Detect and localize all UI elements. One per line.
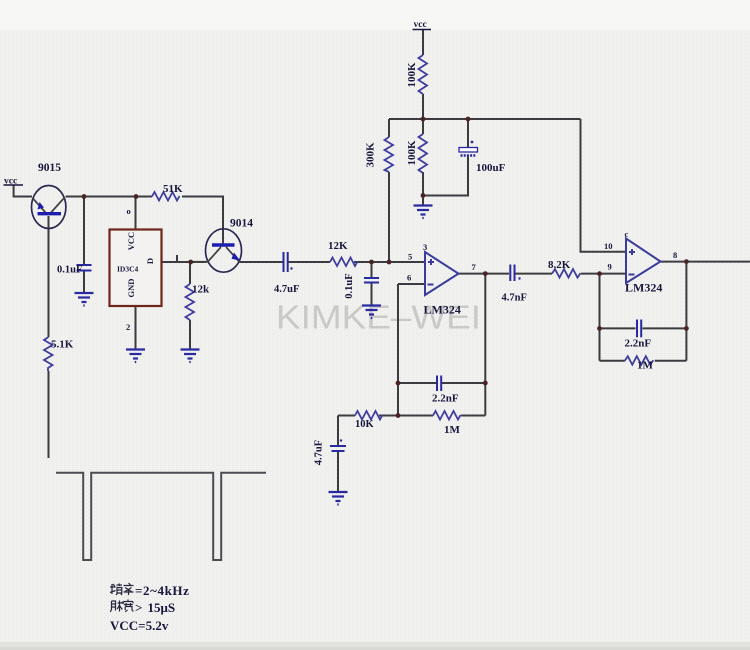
svg-text:4.7nF: 4.7nF (502, 293, 527, 304)
svg-text:VCC=5.2v: VCC=5.2v (110, 618, 169, 633)
svg-text:LM324: LM324 (424, 303, 461, 317)
svg-text:8.2K: 8.2K (548, 259, 571, 271)
svg-text:100uF: 100uF (476, 162, 506, 174)
svg-text:2.2nF: 2.2nF (625, 338, 652, 350)
svg-text:o: o (127, 206, 131, 216)
svg-text:5.1K: 5.1K (51, 339, 74, 351)
svg-text:0.1uF: 0.1uF (57, 265, 82, 276)
svg-text:6: 6 (407, 273, 411, 283)
svg-text:4.7uF: 4.7uF (274, 284, 299, 295)
svg-text:D: D (145, 258, 155, 264)
svg-text:vcc: vcc (414, 20, 427, 30)
svg-text:10: 10 (604, 241, 613, 251)
svg-text:0.1uF: 0.1uF (344, 273, 355, 298)
svg-text:9: 9 (608, 262, 612, 272)
svg-text:12K: 12K (328, 240, 348, 252)
svg-text:5: 5 (408, 252, 412, 262)
svg-text:LM324: LM324 (625, 281, 662, 295)
svg-text:9015: 9015 (38, 162, 61, 174)
svg-text:100K: 100K (406, 140, 418, 166)
svg-text:VCC: VCC (126, 232, 136, 250)
svg-text:100K: 100K (406, 62, 418, 88)
svg-text:15μS: 15μS (148, 600, 176, 615)
svg-text:1M: 1M (444, 424, 461, 436)
svg-text:2: 2 (126, 322, 130, 332)
svg-text:ID3C4: ID3C4 (117, 265, 139, 274)
svg-text:c: c (625, 229, 629, 239)
svg-text:51K: 51K (163, 183, 183, 195)
svg-text:=2~4kHz: =2~4kHz (135, 583, 189, 598)
svg-text:4.7uF: 4.7uF (314, 440, 325, 465)
svg-text:12k: 12k (192, 284, 210, 296)
svg-text:1M: 1M (637, 360, 654, 372)
svg-text:8: 8 (673, 250, 677, 260)
svg-text:9014: 9014 (230, 218, 253, 230)
svg-text:>: > (135, 600, 142, 615)
svg-text:2.2nF: 2.2nF (432, 393, 459, 405)
svg-text:3: 3 (423, 242, 427, 252)
svg-text:10K: 10K (355, 419, 375, 430)
svg-text:300K: 300K (365, 142, 377, 168)
svg-text:GND: GND (126, 279, 136, 298)
